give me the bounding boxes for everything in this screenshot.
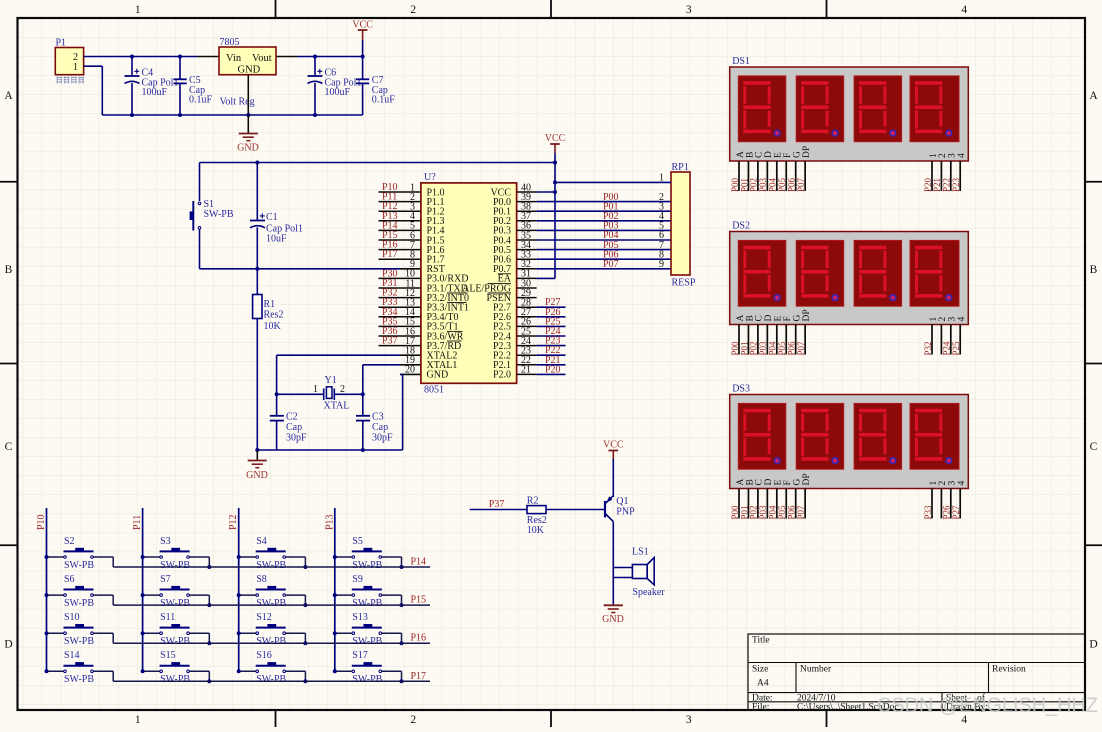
designator U? bbox=[424, 172, 436, 183]
resistor pack RP1 bbox=[671, 172, 690, 275]
junction RP1 pin1 tap bbox=[553, 180, 557, 184]
junction S11 column bbox=[141, 631, 145, 635]
svg-text:S15: S15 bbox=[160, 650, 176, 661]
wire S8 right jog bbox=[286, 595, 306, 605]
switch S1 bbox=[190, 201, 201, 231]
designator S16 bbox=[256, 650, 286, 685]
label Y1 pins bbox=[313, 384, 345, 395]
wire S4 right jog bbox=[286, 557, 306, 567]
junction xtal right bbox=[361, 392, 365, 396]
svg-text:4: 4 bbox=[957, 317, 967, 322]
label RESP bbox=[672, 278, 696, 289]
net labels P10-P13 columns bbox=[36, 514, 335, 530]
svg-text:C: C bbox=[5, 441, 13, 453]
designator S15 bbox=[160, 650, 190, 685]
capacitor C4 bbox=[125, 57, 140, 116]
svg-text:C1: C1 bbox=[266, 212, 278, 223]
junction row4 col2 bbox=[207, 679, 211, 683]
designator S3 bbox=[160, 536, 190, 571]
title block text bbox=[752, 636, 1026, 713]
svg-text:S7: S7 bbox=[160, 574, 171, 585]
switch S10 bbox=[64, 624, 94, 635]
designator S7 bbox=[160, 574, 190, 609]
svg-text:10K: 10K bbox=[527, 525, 545, 536]
svg-text:D: D bbox=[4, 639, 12, 651]
svg-text:GND: GND bbox=[602, 614, 624, 625]
wire keypad row 1 rail bbox=[113, 566, 430, 568]
svg-text:P23: P23 bbox=[951, 177, 961, 192]
junction C7 top bbox=[361, 55, 365, 59]
svg-text:SW-PB: SW-PB bbox=[64, 636, 94, 647]
junction row3 col3 bbox=[303, 641, 307, 645]
wire S15 left bbox=[143, 670, 160, 672]
wire S17 left bbox=[335, 670, 352, 672]
wire R2 to Q1 base bbox=[546, 509, 604, 511]
svg-text:GND: GND bbox=[427, 370, 449, 381]
junction C6 top bbox=[313, 55, 317, 59]
net labels P27-P20 bbox=[545, 297, 561, 375]
switch S11 bbox=[160, 624, 190, 635]
wire S16 left bbox=[239, 670, 256, 672]
wire P1 pin1 down bbox=[84, 66, 131, 115]
power VCC (speaker) bbox=[603, 440, 624, 496]
svg-text:VCC: VCC bbox=[603, 440, 624, 451]
svg-text:SW-PB: SW-PB bbox=[352, 674, 382, 685]
junction S4 column bbox=[237, 555, 241, 559]
svg-text:SW-PB: SW-PB bbox=[204, 209, 234, 220]
junction S3 column bbox=[141, 555, 145, 559]
switch S13 bbox=[352, 624, 382, 635]
designator S13 bbox=[352, 612, 382, 647]
net labels DS1 digit select bbox=[923, 177, 961, 192]
wire bottom rail bbox=[131, 114, 363, 116]
speaker LS1 bbox=[632, 558, 654, 585]
designator S8 bbox=[256, 574, 286, 609]
transistor Q1 bbox=[605, 496, 613, 522]
wire S1 bottom to RST bbox=[200, 229, 421, 268]
svg-text:0.1uF: 0.1uF bbox=[372, 95, 396, 106]
pin 7805 GND bbox=[247, 75, 249, 115]
wire S17 right jog bbox=[382, 671, 402, 681]
wire S5 left bbox=[335, 556, 352, 558]
crystal Y1 bbox=[324, 387, 335, 400]
junction C6 bottom bbox=[313, 113, 317, 117]
junction row4 col3 bbox=[303, 679, 307, 683]
svg-text:S16: S16 bbox=[256, 650, 272, 661]
wire VCC vertical to EA bbox=[554, 163, 556, 279]
svg-text:Speaker: Speaker bbox=[632, 587, 665, 598]
junction VCC riser bbox=[553, 161, 557, 165]
wire keypad columns bbox=[47, 508, 335, 671]
wire S15 right jog bbox=[190, 671, 210, 681]
net label P17 bbox=[411, 671, 427, 682]
svg-text:SW-PB: SW-PB bbox=[160, 560, 190, 571]
svg-text:P17: P17 bbox=[411, 671, 427, 682]
pin names left bbox=[427, 187, 470, 380]
regulator U 7805 bbox=[219, 47, 276, 75]
wire S6 left bbox=[47, 594, 64, 596]
designator S11 bbox=[160, 612, 190, 647]
wire S12 right jog bbox=[286, 633, 306, 643]
display DS2 digits bbox=[738, 240, 959, 306]
svg-text:RESP: RESP bbox=[672, 278, 696, 289]
display DS1 digits bbox=[738, 76, 959, 142]
wire GND pin20 bbox=[400, 374, 421, 450]
junction C1 RST bbox=[255, 267, 259, 271]
wire S11 right jog bbox=[190, 633, 210, 643]
pin numbers RP1 2-9 bbox=[659, 192, 664, 270]
junction C5 top bbox=[178, 55, 182, 59]
designator RP1 bbox=[672, 162, 689, 173]
svg-text:S2: S2 bbox=[64, 536, 75, 547]
svg-text:P13: P13 bbox=[324, 514, 335, 530]
pins DS1 digit 1-4 bbox=[932, 161, 960, 191]
svg-text:Size: Size bbox=[752, 665, 768, 675]
pins left stubs bbox=[379, 192, 421, 346]
svg-text:4: 4 bbox=[957, 153, 967, 158]
svg-text:4: 4 bbox=[957, 481, 967, 486]
junction S6 column bbox=[45, 593, 49, 597]
svg-text:Vin: Vin bbox=[226, 53, 242, 64]
svg-text:Vout: Vout bbox=[252, 53, 272, 64]
wire S8 left bbox=[239, 594, 256, 596]
junction S16 column bbox=[237, 669, 241, 673]
wire S7 left bbox=[143, 594, 160, 596]
junction S7 column bbox=[141, 593, 145, 597]
junction C1 top bbox=[255, 161, 259, 165]
wire crystal left bbox=[277, 393, 324, 395]
svg-text:B: B bbox=[1090, 264, 1098, 276]
wire S9 left bbox=[335, 594, 352, 596]
designator Q1 bbox=[616, 496, 635, 517]
svg-text:Title: Title bbox=[752, 636, 770, 646]
svg-text:Revision: Revision bbox=[992, 665, 1026, 675]
svg-text:C2: C2 bbox=[286, 412, 298, 423]
resistor R1 bbox=[253, 295, 262, 319]
svg-text:P2.0: P2.0 bbox=[493, 370, 511, 381]
svg-text:1: 1 bbox=[659, 172, 664, 183]
svg-text:VCC: VCC bbox=[545, 133, 566, 144]
label C3 values bbox=[372, 412, 393, 444]
svg-text:SW-PB: SW-PB bbox=[160, 636, 190, 647]
svg-text:A: A bbox=[4, 90, 13, 102]
pin labels DS2 A-DP bbox=[736, 309, 812, 321]
svg-text:SW-PB: SW-PB bbox=[160, 598, 190, 609]
wire S13 left bbox=[335, 632, 352, 634]
capacitor C6 bbox=[308, 57, 323, 116]
designator Y1 bbox=[324, 375, 350, 412]
pin labels DS3 1-4 bbox=[929, 481, 967, 486]
svg-text:9: 9 bbox=[659, 259, 664, 270]
designator P1 bbox=[56, 38, 67, 49]
svg-text:P15: P15 bbox=[411, 595, 427, 606]
svg-text:R1: R1 bbox=[264, 299, 276, 310]
net labels P10-P17 P30-P37 bbox=[382, 182, 398, 347]
switch S6 bbox=[64, 586, 94, 596]
svg-text:A: A bbox=[1089, 90, 1098, 102]
display DS1 body bbox=[730, 67, 969, 161]
svg-text:SW-PB: SW-PB bbox=[256, 598, 286, 609]
junction C5 bottom bbox=[178, 113, 182, 117]
switch S16 bbox=[256, 662, 286, 673]
designator DS2 bbox=[732, 221, 750, 232]
svg-text:DS1: DS1 bbox=[732, 56, 750, 67]
svg-text:4: 4 bbox=[961, 4, 967, 16]
label 8051 bbox=[424, 385, 444, 396]
svg-text:S6: S6 bbox=[64, 574, 75, 585]
label C5 values bbox=[189, 75, 213, 106]
svg-text:P1: P1 bbox=[56, 38, 67, 49]
display DS3 digits bbox=[738, 403, 959, 469]
pins DS2 segment A-DP bbox=[739, 325, 805, 355]
wire keypad row 2 rail bbox=[113, 604, 430, 606]
svg-text:Cap: Cap bbox=[286, 422, 302, 433]
svg-text:Y1: Y1 bbox=[325, 375, 337, 386]
wire S14 right jog bbox=[94, 671, 114, 681]
svg-text:B: B bbox=[5, 264, 13, 276]
svg-text:3: 3 bbox=[686, 714, 692, 726]
designator S5 bbox=[352, 536, 382, 571]
svg-text:S14: S14 bbox=[64, 650, 80, 661]
designator S17 bbox=[352, 650, 382, 685]
pin labels DS3 A-DP bbox=[736, 473, 812, 485]
net label P16 bbox=[411, 633, 427, 644]
net label P15 bbox=[411, 595, 427, 606]
junction S2 column bbox=[45, 555, 49, 559]
wire S2 left bbox=[47, 556, 64, 558]
svg-text:C: C bbox=[1090, 441, 1098, 453]
label Volt Reg bbox=[220, 97, 255, 108]
capacitor C1 bbox=[250, 213, 265, 268]
svg-text:SW-PB: SW-PB bbox=[256, 674, 286, 685]
wire XTAL1 pin19 bbox=[363, 365, 421, 395]
svg-text:2: 2 bbox=[410, 4, 416, 16]
designator S12 bbox=[256, 612, 286, 647]
net labels DS3 P00-P07 bbox=[730, 505, 806, 520]
switch S9 bbox=[352, 586, 382, 596]
svg-text:SW-PB: SW-PB bbox=[64, 674, 94, 685]
svg-text:DP: DP bbox=[802, 146, 812, 158]
svg-text:P14: P14 bbox=[411, 557, 427, 568]
junction S9 column bbox=[333, 593, 337, 597]
wire S3 left bbox=[143, 556, 160, 558]
svg-text:Number: Number bbox=[800, 665, 832, 675]
junction VCC pin40 tap bbox=[553, 190, 557, 194]
label R2 values bbox=[527, 496, 547, 537]
svg-text:P17: P17 bbox=[382, 249, 398, 260]
wire Q1 emitter bbox=[612, 496, 614, 497]
svg-text:8051: 8051 bbox=[424, 385, 444, 396]
svg-text:GND: GND bbox=[238, 64, 261, 75]
junction row1 col4 bbox=[400, 565, 404, 569]
capacitor C2 bbox=[270, 394, 284, 450]
designator S1 bbox=[204, 199, 234, 220]
watermark CSDN bbox=[877, 693, 1098, 717]
switch S12 bbox=[256, 624, 286, 635]
switch S14 bbox=[64, 662, 94, 673]
junction S5 column bbox=[333, 555, 337, 559]
svg-text:10K: 10K bbox=[264, 321, 282, 332]
ground GND (power) bbox=[237, 115, 259, 154]
junction S17 column bbox=[333, 669, 337, 673]
svg-text:Cap: Cap bbox=[372, 422, 388, 433]
wire S14 left bbox=[47, 670, 64, 672]
svg-text:P07: P07 bbox=[796, 177, 806, 192]
svg-text:D: D bbox=[1089, 639, 1097, 651]
designator S6 bbox=[64, 574, 94, 609]
switch S3 bbox=[160, 548, 190, 559]
pins DS2 digit 1-4 bbox=[932, 325, 960, 355]
designator DS3 bbox=[732, 384, 750, 395]
wire S4 left bbox=[239, 556, 256, 558]
svg-text:S9: S9 bbox=[352, 574, 363, 585]
svg-text:P25: P25 bbox=[951, 341, 961, 356]
junction row2 col4 bbox=[400, 603, 404, 607]
svg-text:P07: P07 bbox=[603, 259, 619, 270]
wire S1 top bbox=[199, 163, 201, 202]
wire S10 right jog bbox=[94, 633, 114, 643]
display DS3 body bbox=[730, 395, 969, 489]
display DS2 body bbox=[730, 232, 969, 325]
label C1 values bbox=[266, 212, 303, 245]
junction row2 col3 bbox=[303, 603, 307, 607]
resistor R2 bbox=[527, 506, 546, 514]
power VCC (mcu) bbox=[545, 133, 566, 163]
net label P14 bbox=[411, 557, 427, 568]
wire S13 right jog bbox=[382, 633, 402, 643]
pins DS3 segment A-DP bbox=[739, 489, 805, 519]
pins DS3 digit 1-4 bbox=[932, 489, 960, 519]
switch S8 bbox=[256, 586, 286, 596]
designator S14 bbox=[64, 650, 94, 685]
switch S5 bbox=[352, 548, 382, 559]
wire speaker pins bbox=[613, 568, 632, 605]
svg-text:100uF: 100uF bbox=[325, 87, 351, 98]
wire C1 top bbox=[256, 163, 258, 221]
svg-text:30pF: 30pF bbox=[372, 433, 393, 444]
pin numbers right 40-21 bbox=[521, 182, 531, 375]
junction row3 col4 bbox=[400, 641, 404, 645]
junction 7805 gnd rail bbox=[246, 113, 250, 117]
svg-text:S8: S8 bbox=[256, 574, 267, 585]
svg-text:P32: P32 bbox=[923, 341, 933, 355]
junction row3 col2 bbox=[207, 641, 211, 645]
net labels DS1 P00-P07 bbox=[730, 177, 806, 192]
svg-text:DS3: DS3 bbox=[732, 384, 750, 395]
capacitor C7 bbox=[356, 57, 369, 116]
pin labels DS2 1-4 bbox=[929, 317, 967, 322]
junction xtal left bbox=[275, 392, 279, 396]
wire S5 right jog bbox=[382, 557, 402, 567]
wire crystal right bbox=[334, 393, 363, 395]
svg-text:Res2: Res2 bbox=[264, 310, 284, 321]
svg-text:SW-PB: SW-PB bbox=[256, 560, 286, 571]
designator S4 bbox=[256, 536, 286, 571]
junction C4 top bbox=[130, 55, 134, 59]
svg-text:0.1uF: 0.1uF bbox=[189, 95, 213, 106]
label C2 values bbox=[286, 412, 307, 444]
svg-text:SW-PB: SW-PB bbox=[64, 560, 94, 571]
switch S17 bbox=[352, 662, 382, 673]
junction S12 column bbox=[237, 631, 241, 635]
wire S2 right jog bbox=[94, 557, 114, 567]
svg-text:S5: S5 bbox=[352, 536, 363, 547]
designator S2 bbox=[64, 536, 94, 571]
wire EA to VCC bbox=[537, 277, 555, 279]
label C6 values bbox=[325, 68, 362, 99]
svg-text:VCC: VCC bbox=[352, 20, 373, 31]
svg-text:P37: P37 bbox=[489, 499, 505, 510]
svg-text:P27: P27 bbox=[951, 505, 961, 520]
wire Q1 collector to speaker bbox=[612, 522, 614, 568]
svg-text:DP: DP bbox=[802, 473, 812, 485]
svg-text:S13: S13 bbox=[352, 612, 368, 623]
label R1 values bbox=[264, 299, 284, 332]
wire pin40 VCC bbox=[537, 191, 555, 193]
connector P1 bbox=[55, 48, 83, 75]
net labels DS2 digit select bbox=[923, 341, 961, 356]
wire R1 top bbox=[256, 269, 258, 295]
svg-text:SW-PB: SW-PB bbox=[160, 674, 190, 685]
wire S11 left bbox=[143, 632, 160, 634]
wire R1 bottom bbox=[256, 319, 258, 451]
svg-text:10uF: 10uF bbox=[266, 234, 287, 245]
svg-text:2: 2 bbox=[410, 714, 416, 726]
svg-text:3: 3 bbox=[686, 4, 692, 16]
svg-text:C3: C3 bbox=[372, 412, 384, 423]
svg-text:7805: 7805 bbox=[220, 37, 240, 48]
ic U? 8051 body bbox=[421, 183, 517, 383]
svg-text:SW-PB: SW-PB bbox=[256, 636, 286, 647]
svg-text:20: 20 bbox=[405, 365, 415, 376]
wire S6 right jog bbox=[94, 595, 114, 605]
net label P37 bbox=[489, 499, 505, 510]
wire P37 to R2 bbox=[470, 509, 527, 511]
pin names right bbox=[462, 187, 512, 380]
junction C4 bottom bbox=[130, 113, 134, 117]
svg-text:S12: S12 bbox=[256, 612, 272, 623]
svg-text:A4: A4 bbox=[757, 679, 769, 689]
svg-text:GND: GND bbox=[246, 470, 268, 481]
switch S4 bbox=[256, 548, 286, 559]
svg-text:SW-PB: SW-PB bbox=[352, 560, 382, 571]
junction row4 col4 bbox=[400, 679, 404, 683]
svg-text:PNP: PNP bbox=[616, 506, 635, 517]
svg-text:1: 1 bbox=[135, 714, 141, 726]
designator LS1 bbox=[632, 547, 665, 598]
svg-text:P10: P10 bbox=[36, 514, 47, 530]
switch S15 bbox=[160, 662, 190, 673]
svg-text:S4: S4 bbox=[256, 536, 267, 547]
svg-text:P20: P20 bbox=[545, 364, 561, 375]
capacitor C5 bbox=[174, 57, 187, 116]
svg-text:XTAL: XTAL bbox=[324, 401, 350, 412]
junction R1 gnd bbox=[255, 448, 259, 452]
wire S9 right jog bbox=[382, 595, 402, 605]
wire P0 bus to RP1 bbox=[537, 202, 671, 269]
wire xtal ground rail bbox=[257, 449, 402, 451]
pin numbers left 1-20 bbox=[405, 182, 415, 375]
junction S15 column bbox=[141, 669, 145, 673]
wire P1 pin2 to rail bbox=[84, 56, 197, 58]
wire top rail bbox=[197, 56, 363, 58]
svg-text:P16: P16 bbox=[411, 633, 427, 644]
svg-text:S10: S10 bbox=[64, 612, 80, 623]
svg-text:P12: P12 bbox=[228, 514, 239, 530]
junction S14 column bbox=[45, 669, 49, 673]
svg-text:1: 1 bbox=[73, 62, 78, 73]
junction C3 bottom bbox=[361, 448, 365, 452]
